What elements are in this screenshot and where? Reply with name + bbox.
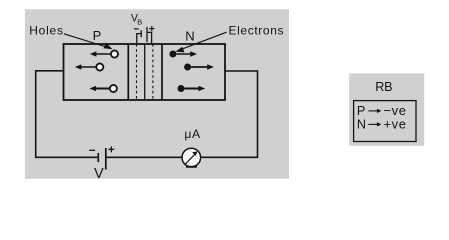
svg-text:V: V	[94, 166, 104, 182]
holes callout arrow	[64, 34, 113, 50]
RB legend gray box	[349, 73, 424, 145]
electron 2 (filled dot)	[184, 64, 191, 71]
barrier battery short plate	[140, 30, 142, 37]
electron 3 (filled dot)	[178, 85, 185, 92]
label Electrons	[229, 24, 285, 38]
svg-text:+ve: +ve	[384, 116, 407, 131]
svg-text:RB: RB	[375, 80, 392, 94]
electron 1 drift arrow	[176, 51, 197, 56]
RB legend inner border	[354, 101, 416, 142]
svg-text:N: N	[357, 117, 366, 131]
hole 3 (open circle)	[110, 85, 117, 92]
wire left loop	[36, 71, 98, 158]
svg-text:μA: μA	[184, 127, 201, 141]
RB legend title	[375, 80, 392, 94]
electron 3 drift arrow	[185, 86, 206, 91]
junction line (solid middle)	[144, 44, 146, 100]
battery V long plate (positive)	[105, 148, 107, 170]
hole 2 (open circle)	[96, 63, 103, 70]
barrier battery left lead	[137, 34, 141, 45]
barrier battery long plate	[146, 27, 148, 42]
svg-text:P: P	[357, 104, 365, 118]
microammeter base line	[186, 166, 197, 168]
hole 1 (open circle)	[111, 50, 118, 57]
svg-text:P: P	[93, 28, 102, 43]
pn junction box	[64, 44, 226, 100]
RB legend line N to +ve	[357, 116, 407, 131]
depletion boundary line (solid left)	[127, 44, 129, 100]
svg-text:N: N	[185, 29, 194, 44]
label Holes	[29, 24, 64, 38]
svg-text:B: B	[137, 18, 142, 27]
depletion boundary line (solid right)	[161, 44, 163, 100]
barrier battery right lead	[147, 32, 152, 44]
barrier battery negative sign	[134, 28, 139, 30]
microammeter body	[182, 148, 201, 167]
battery label V	[94, 166, 104, 182]
hole 3 drift arrow	[89, 86, 109, 91]
depletion dashed line (right)	[152, 44, 154, 100]
label P region	[93, 28, 102, 43]
wire battery to ammeter	[106, 156, 182, 158]
label VB (barrier potential)	[131, 12, 142, 26]
svg-text:Electrons: Electrons	[229, 24, 285, 38]
microammeter needle	[185, 151, 197, 164]
hole 2 drift arrow	[75, 64, 96, 69]
wire ammeter to right loop	[201, 71, 258, 157]
electrons callout arrow	[175, 32, 226, 52]
hole 1 drift arrow	[90, 51, 111, 56]
depletion dashed line (left)	[136, 44, 138, 100]
battery V short plate (negative)	[97, 153, 99, 162]
main gray panel	[25, 9, 289, 178]
electron 2 drift arrow	[191, 64, 214, 69]
electron 1 (filled dot)	[169, 51, 176, 58]
barrier battery positive sign	[149, 26, 154, 31]
battery negative sign	[89, 149, 95, 151]
microammeter uA label	[184, 127, 201, 141]
label N region	[185, 29, 194, 44]
svg-text:Holes: Holes	[29, 24, 64, 38]
RB legend line P to -ve	[357, 103, 407, 118]
battery positive sign	[108, 146, 114, 152]
